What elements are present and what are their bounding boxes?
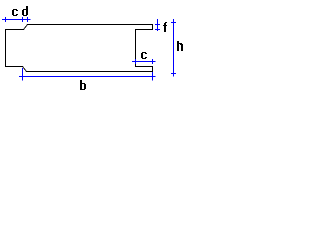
dimension f (top right, double-arrow tick) <box>155 19 160 31</box>
profile outline <box>6 25 153 72</box>
label c (top) <box>12 9 18 16</box>
label d (top) <box>22 6 28 16</box>
label c (bottom) <box>141 52 147 59</box>
label b <box>80 80 86 90</box>
dimension h (right vertical) <box>171 19 176 77</box>
dimension line c-d (top left) <box>2 17 31 22</box>
label h <box>177 41 183 51</box>
label f <box>163 22 167 32</box>
extension line (bottom left) <box>22 68 24 81</box>
dimension b (bottom) <box>19 72 156 81</box>
dimension c (bottom right) <box>132 59 156 64</box>
